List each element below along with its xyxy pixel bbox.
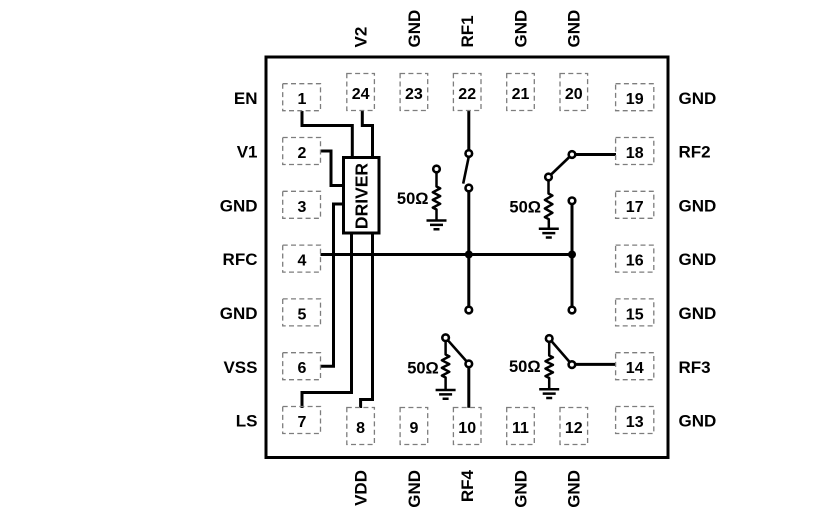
svg-text:GND: GND <box>405 10 424 48</box>
svg-text:19: 19 <box>626 91 644 108</box>
svg-text:16: 16 <box>626 253 644 270</box>
svg-text:RFC: RFC <box>223 250 258 269</box>
svg-text:GND: GND <box>679 89 717 108</box>
svg-text:50Ω: 50Ω <box>509 358 541 376</box>
svg-text:3: 3 <box>298 199 307 216</box>
svg-text:9: 9 <box>409 420 418 437</box>
svg-text:VSS: VSS <box>223 358 257 377</box>
svg-text:13: 13 <box>626 414 644 431</box>
svg-text:50Ω: 50Ω <box>397 190 429 208</box>
svg-text:RF1: RF1 <box>458 15 477 47</box>
svg-text:8: 8 <box>356 420 365 437</box>
svg-text:GND: GND <box>511 470 530 508</box>
svg-text:RF3: RF3 <box>679 358 711 377</box>
svg-text:22: 22 <box>458 86 476 103</box>
svg-text:GND: GND <box>679 196 717 215</box>
svg-text:23: 23 <box>405 86 423 103</box>
svg-text:50Ω: 50Ω <box>407 359 439 377</box>
svg-text:LS: LS <box>236 412 258 431</box>
svg-text:14: 14 <box>626 360 644 377</box>
svg-text:5: 5 <box>298 306 307 323</box>
svg-text:17: 17 <box>626 199 644 216</box>
svg-text:GND: GND <box>220 196 258 215</box>
svg-text:RF2: RF2 <box>679 143 711 162</box>
svg-text:15: 15 <box>626 306 644 323</box>
svg-text:RF4: RF4 <box>458 469 477 502</box>
svg-text:1: 1 <box>298 91 307 108</box>
svg-text:7: 7 <box>298 414 307 431</box>
svg-text:12: 12 <box>565 420 583 437</box>
svg-text:2: 2 <box>298 145 307 162</box>
svg-text:6: 6 <box>298 360 307 377</box>
svg-text:V1: V1 <box>237 143 258 162</box>
svg-text:V2: V2 <box>352 27 371 48</box>
svg-text:24: 24 <box>352 86 370 103</box>
svg-text:18: 18 <box>626 145 644 162</box>
svg-text:GND: GND <box>565 470 584 508</box>
svg-text:10: 10 <box>458 420 476 437</box>
svg-text:20: 20 <box>565 86 583 103</box>
svg-text:GND: GND <box>220 304 258 323</box>
svg-text:50Ω: 50Ω <box>509 198 541 216</box>
svg-text:21: 21 <box>512 86 530 103</box>
svg-text:4: 4 <box>298 253 307 270</box>
svg-text:GND: GND <box>511 10 530 48</box>
svg-text:VDD: VDD <box>352 470 371 506</box>
svg-text:DRIVER: DRIVER <box>351 163 371 229</box>
svg-text:GND: GND <box>405 470 424 508</box>
svg-text:GND: GND <box>679 250 717 269</box>
svg-text:EN: EN <box>234 89 258 108</box>
svg-text:GND: GND <box>565 10 584 48</box>
svg-text:GND: GND <box>679 412 717 431</box>
svg-text:GND: GND <box>679 304 717 323</box>
svg-text:11: 11 <box>512 420 529 437</box>
